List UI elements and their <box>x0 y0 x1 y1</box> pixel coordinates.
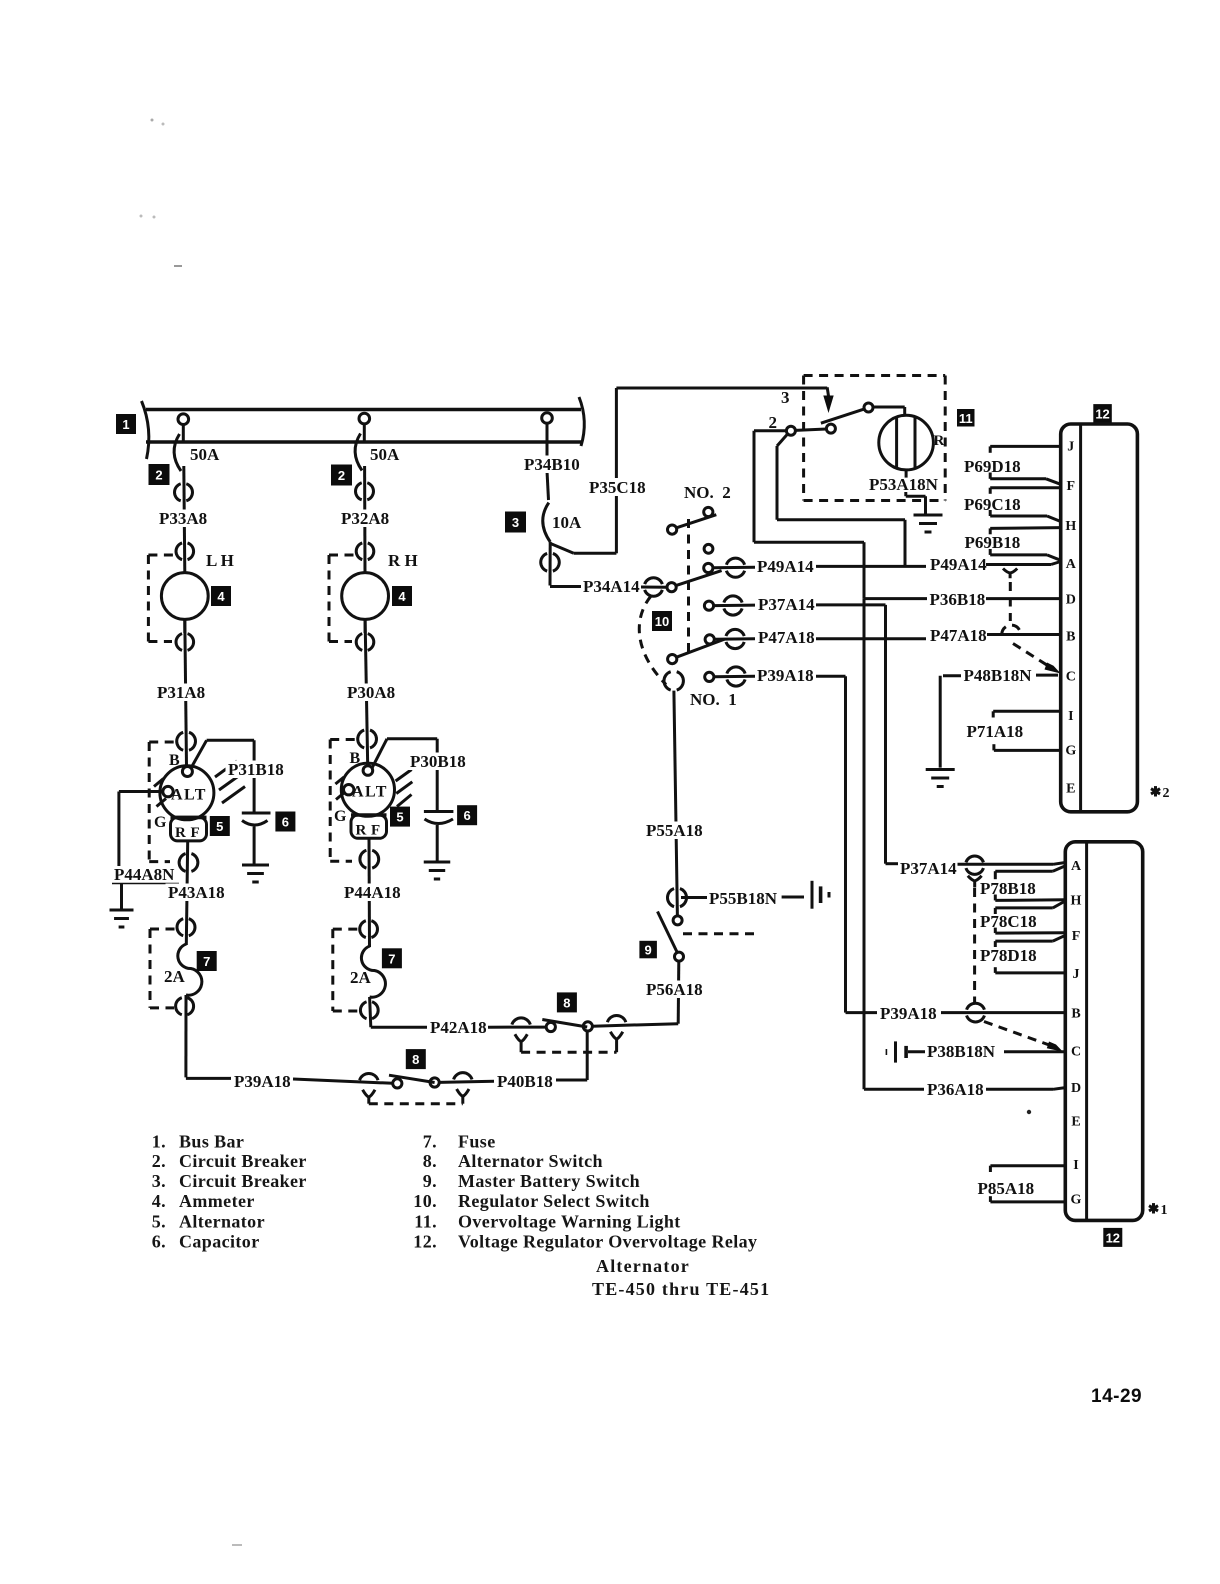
label P44A8N <box>114 865 175 884</box>
svg-text:P85A18: P85A18 <box>978 1179 1035 1198</box>
footnote *1 <box>1149 1203 1168 1218</box>
svg-text:6: 6 <box>463 808 470 823</box>
relay blade <box>821 409 865 423</box>
ground capacitor LH <box>242 865 269 882</box>
wire jumper P69D18 to pin J <box>990 446 1060 452</box>
ground P44A8N <box>110 910 134 927</box>
alternator switch 8 LH <box>293 1073 494 1104</box>
svg-text:7: 7 <box>388 951 395 966</box>
ammeter 4 LH <box>161 573 208 633</box>
item label square 10 <box>652 611 672 631</box>
label 3 position <box>781 388 790 407</box>
svg-text:P78D18: P78D18 <box>980 946 1037 965</box>
hatch marks RH alternator <box>396 770 413 807</box>
svg-text:8.: 8. <box>423 1151 437 1171</box>
ammeter 4 RH <box>342 573 389 633</box>
svg-text:P37A14: P37A14 <box>758 595 815 614</box>
svg-text:5: 5 <box>396 810 403 825</box>
label ALT LH <box>171 787 207 804</box>
switch 10 pole NO.2 <box>668 515 717 535</box>
svg-text:P40B18: P40B18 <box>497 1072 553 1091</box>
wire P37A14 corner down <box>816 605 886 863</box>
label P69D18 <box>964 457 1021 476</box>
terminal G circle LH <box>163 786 173 796</box>
svg-text:Capacitor: Capacitor <box>179 1232 260 1252</box>
label R H <box>388 551 418 570</box>
wire P55A18 <box>674 691 678 916</box>
svg-text:F: F <box>1067 479 1076 494</box>
svg-text:2A: 2A <box>350 968 372 987</box>
wire jumper P69C18 to pin H <box>990 510 1060 522</box>
label P78B18 <box>980 879 1036 898</box>
shield dashed drop lower <box>973 888 976 1003</box>
svg-text:10A: 10A <box>552 513 582 532</box>
circuit breaker 2 RH (50A) <box>355 434 362 471</box>
wire P44A8N <box>112 792 179 911</box>
svg-text:H: H <box>1071 894 1082 909</box>
svg-text:G: G <box>154 814 168 831</box>
svg-text:D: D <box>1071 1081 1081 1096</box>
label 2A LH <box>164 967 186 986</box>
svg-text:D: D <box>1066 593 1076 608</box>
svg-text:P36A18: P36A18 <box>927 1080 984 1099</box>
svg-text:3.: 3. <box>152 1171 166 1191</box>
terminal B circle RH <box>363 766 373 776</box>
svg-text:J: J <box>1067 439 1074 454</box>
svg-text:P53A18N: P53A18N <box>869 475 939 494</box>
wire P43A18 <box>186 841 187 945</box>
alternator switch 8 RH <box>488 1015 678 1052</box>
svg-text:4: 4 <box>217 589 225 604</box>
svg-text:4: 4 <box>398 589 406 604</box>
switch 10 pole NO.1 <box>668 639 725 664</box>
wire contact2 to P49A14 <box>777 434 905 567</box>
label P55B18N <box>709 889 778 908</box>
label P53A18N <box>869 475 939 494</box>
svg-text:1: 1 <box>122 417 129 432</box>
svg-text:2: 2 <box>769 413 778 432</box>
svg-text:G: G <box>334 808 348 825</box>
label P48B18N <box>964 666 1033 685</box>
connector above ammeter LH <box>176 543 194 560</box>
svg-text:P69C18: P69C18 <box>964 495 1021 514</box>
switch 9 dashed link <box>683 932 756 935</box>
fuse 7 RH dashed case <box>333 929 359 1011</box>
svg-text:P31B18: P31B18 <box>228 760 284 779</box>
wire jumper P85A18 to pin I <box>990 1166 1065 1172</box>
label P56A18 <box>644 980 704 999</box>
connector above fuse LH <box>177 919 195 936</box>
svg-text:5.: 5. <box>152 1212 166 1232</box>
connector below alternator LH <box>179 854 198 872</box>
svg-text:F: F <box>371 823 380 839</box>
item label square 4 LH <box>211 586 231 606</box>
svg-text:1.: 1. <box>152 1131 166 1151</box>
connector below ammeter RH <box>356 634 374 651</box>
svg-text:5: 5 <box>216 819 223 834</box>
label B RH <box>350 750 362 767</box>
capacitor 6 RH <box>424 812 454 863</box>
svg-text:2A: 2A <box>164 967 186 986</box>
svg-text:ALT: ALT <box>171 787 207 804</box>
wire P47A18 to relay block <box>816 635 1061 639</box>
fuse 7 LH dashed case <box>150 929 176 1008</box>
item label square 5 RH <box>390 807 410 827</box>
label NO. 2 <box>684 483 731 502</box>
label 10A <box>552 513 582 532</box>
wire P33A8 LH <box>184 466 185 573</box>
svg-text:Fuse: Fuse <box>458 1131 496 1151</box>
connector below alternator RH <box>360 850 379 868</box>
svg-text:B: B <box>1066 630 1075 645</box>
alternator 5 RH circle <box>341 763 394 816</box>
label P42A18 <box>430 1018 487 1037</box>
svg-text:F: F <box>191 825 200 841</box>
svg-text:1: 1 <box>1161 1203 1168 1218</box>
label P31A8 <box>155 683 211 702</box>
item label square 12 upper <box>1093 404 1112 423</box>
switch 10 mechanical link dashed <box>687 519 690 652</box>
wire P42A18 corner <box>370 997 427 1027</box>
label 2A RH <box>350 968 372 987</box>
terminal G circle RH <box>344 785 354 795</box>
wire jumper P78B18 to pin A <box>995 866 1064 879</box>
label G RH <box>334 808 348 825</box>
fuse 7 RH <box>361 946 385 997</box>
connector above fuse RH <box>360 921 378 938</box>
svg-text:A: A <box>1066 557 1077 572</box>
svg-text:P47A18: P47A18 <box>930 626 987 645</box>
wire P48B18N bracket <box>940 676 961 768</box>
svg-text:R: R <box>175 825 186 841</box>
wire jumper P69B18 to pin H <box>990 528 1060 535</box>
speck dot <box>1027 1110 1031 1114</box>
ground P53A18N <box>914 515 943 532</box>
switch 10 throw contact top <box>704 507 713 516</box>
svg-text:F: F <box>1072 929 1081 944</box>
svg-text:P42A18: P42A18 <box>430 1018 487 1037</box>
wire P39A18 corner down <box>816 676 846 1011</box>
svg-text:C: C <box>1071 1045 1081 1060</box>
label P33A8 <box>157 509 213 528</box>
ground P48B18N <box>926 770 955 787</box>
label P78D18 <box>980 946 1037 965</box>
item label square 8 LH <box>406 1049 426 1069</box>
wire contact3 to lamp <box>873 407 905 415</box>
svg-text:P55A18: P55A18 <box>646 821 703 840</box>
bus tap node RH <box>359 413 370 441</box>
svg-text:P69B18: P69B18 <box>965 533 1021 552</box>
wire P31A8 <box>185 619 187 766</box>
svg-text:Circuit Breaker: Circuit Breaker <box>179 1171 307 1191</box>
label P30B18 <box>408 752 468 771</box>
label P47A18 right <box>930 626 987 645</box>
wire P34B10 <box>547 441 549 500</box>
label P39A18 row4 <box>757 666 814 685</box>
upper block pin letters <box>1065 439 1076 796</box>
label B LH <box>169 752 181 769</box>
svg-text:9.: 9. <box>423 1171 437 1191</box>
label P69C18 <box>964 495 1021 514</box>
svg-text:B: B <box>1071 1007 1080 1022</box>
svg-text:Overvoltage Warning Light: Overvoltage Warning Light <box>458 1212 681 1232</box>
svg-text:A: A <box>1071 859 1082 874</box>
svg-text:Alternator: Alternator <box>596 1256 690 1276</box>
alternator 5 LH dashed case <box>149 742 176 862</box>
terminal B circle LH <box>182 767 192 777</box>
svg-text:E: E <box>1071 1114 1080 1129</box>
switch 10 row2 contact <box>704 601 713 610</box>
wire P53A18N <box>906 470 926 514</box>
svg-text:P69D18: P69D18 <box>964 457 1021 476</box>
label P47A18 row3 <box>758 628 815 647</box>
wire jumper P78C18 to pin F <box>995 928 1065 934</box>
svg-text:9: 9 <box>645 943 652 958</box>
svg-text:P44A8N: P44A8N <box>114 865 175 884</box>
wire contact2 to P36B18 <box>754 431 927 599</box>
switch 9 blade <box>658 912 678 953</box>
svg-text:8: 8 <box>412 1052 419 1067</box>
label 50A RH <box>370 445 400 464</box>
svg-text:P39A18: P39A18 <box>757 666 814 685</box>
label P39A18 LH <box>234 1072 291 1091</box>
label P34A14 <box>583 577 640 596</box>
wire row1 P49A14 <box>713 558 755 577</box>
item label square 8 RH <box>557 992 577 1012</box>
switch 10 row4 contact <box>705 672 714 681</box>
connector P34A14 feed <box>645 578 663 597</box>
label P31B18 <box>226 760 286 779</box>
alternator 5 RH dashed case <box>330 740 357 862</box>
relay contact 2 <box>786 426 795 435</box>
wire P32A8 RH <box>363 466 366 573</box>
svg-text:3: 3 <box>512 515 519 530</box>
overvoltage warning light 11 <box>879 415 934 470</box>
label P36B18 <box>930 590 986 609</box>
wire P39A18 into pin B <box>846 1012 1066 1013</box>
item label square 6 RH <box>457 805 477 825</box>
svg-text:P49A14: P49A14 <box>757 557 814 576</box>
wire row4 P39A18 <box>714 667 755 686</box>
wire jumper P85A18 to pin G <box>990 1196 1065 1202</box>
svg-text:P78C18: P78C18 <box>980 912 1037 931</box>
connector below switch 10 <box>664 672 683 690</box>
svg-text:14-29: 14-29 <box>1091 1386 1142 1407</box>
circuit breaker 3 (10A) <box>543 503 551 542</box>
wire jumper P78B18 to pin H <box>995 895 1065 901</box>
svg-text:7: 7 <box>203 954 210 969</box>
svg-text:10.: 10. <box>413 1191 437 1211</box>
svg-text:2: 2 <box>1163 786 1170 801</box>
svg-text:50A: 50A <box>370 445 400 464</box>
svg-text:12: 12 <box>1095 406 1109 421</box>
wire P36 vertical continued <box>864 599 924 1090</box>
svg-text:P39A18: P39A18 <box>880 1004 937 1023</box>
svg-text:I: I <box>1068 709 1073 724</box>
svg-text:2: 2 <box>155 468 162 483</box>
wire P40B18 junction <box>556 1031 587 1080</box>
label P30A8 <box>345 683 401 702</box>
label P39A18 lower <box>880 1004 937 1023</box>
connector P39A18 shield <box>967 1003 985 1022</box>
svg-text:4.: 4. <box>152 1191 166 1211</box>
wire P49A14 to relay block <box>816 562 1061 567</box>
svg-text:B: B <box>169 752 181 769</box>
svg-text:50A: 50A <box>190 445 220 464</box>
svg-text:P47A18: P47A18 <box>758 628 815 647</box>
terminal box R F RH <box>351 815 387 839</box>
label P44A18 <box>342 883 402 902</box>
item label square 6 LH <box>275 812 295 832</box>
shield dashed diagonal to pin C lower <box>984 1022 1063 1052</box>
label 2 position <box>769 413 778 432</box>
item label square 2 RH <box>331 465 352 486</box>
svg-text:P35C18: P35C18 <box>589 478 646 497</box>
svg-text:P71A18: P71A18 <box>967 722 1024 741</box>
svg-text:Bus Bar: Bus Bar <box>179 1131 244 1151</box>
alternator 5 LH circle <box>160 766 214 820</box>
fuse 7 LH <box>178 944 202 995</box>
lower block pin letters <box>1071 859 1082 1208</box>
switch 10 idle contact <box>704 544 713 553</box>
svg-text:P34B10: P34B10 <box>524 455 580 474</box>
svg-text:P49A14: P49A14 <box>930 555 987 574</box>
wire P36A18 into pin D <box>986 1088 1065 1090</box>
svg-text:R: R <box>356 823 367 839</box>
bus tap node 3 <box>542 413 553 441</box>
item label square 4 RH <box>392 586 412 606</box>
svg-text:TE-450 thru TE-451: TE-450 thru TE-451 <box>592 1279 770 1299</box>
capacitor 6 LH <box>242 813 271 865</box>
connector P37A14 shield <box>966 856 984 874</box>
switch 10 row1 contact <box>704 563 713 572</box>
label P69B18 <box>965 533 1021 552</box>
svg-text:Circuit Breaker: Circuit Breaker <box>179 1151 307 1171</box>
svg-text:P39A18: P39A18 <box>234 1072 291 1091</box>
svg-text:NO. 2: NO. 2 <box>684 483 731 502</box>
switch 9 contact bottom <box>675 952 684 961</box>
label P85A18 <box>978 1179 1035 1198</box>
label P78C18 <box>980 912 1037 931</box>
svg-text:G: G <box>1071 1193 1082 1208</box>
connector below ammeter LH <box>176 634 194 651</box>
label L H <box>206 551 234 570</box>
item label square 7 RH <box>382 948 402 968</box>
wire P37A14 into pin A <box>886 863 1066 865</box>
footnote *2 <box>1151 786 1170 801</box>
feed arrow into relay <box>823 387 833 413</box>
legend right column <box>413 1131 757 1251</box>
item label square 2 LH <box>149 464 170 485</box>
wire jumper P78C18 to pin H <box>995 902 1064 915</box>
ammeter 4 RH dashed case <box>329 555 354 642</box>
terminal box R F LH <box>171 817 207 841</box>
svg-text:Master Battery Switch: Master Battery Switch <box>458 1171 640 1191</box>
ground capacitor RH <box>424 862 451 879</box>
title TE range <box>592 1279 770 1299</box>
switch 8 RH dashed link <box>521 1051 617 1054</box>
label P43A18 <box>166 883 226 902</box>
brush ticks G LH <box>154 779 166 807</box>
item label square 7 LH <box>197 951 217 971</box>
svg-text:L H: L H <box>206 551 234 570</box>
ammeter 4 LH dashed case <box>148 555 174 642</box>
relay contact 3 <box>864 403 873 412</box>
svg-text:P32A8: P32A8 <box>341 509 389 528</box>
wire P34A14 corner <box>550 542 581 587</box>
label P35C18 <box>588 478 646 497</box>
wire jumper P69B18 to pin A <box>990 549 1060 560</box>
shield dashed drop upper <box>1009 582 1012 621</box>
item label square 9 <box>639 941 657 959</box>
svg-text:Alternator: Alternator <box>179 1212 265 1232</box>
battery symbol P55B18N <box>812 881 829 909</box>
svg-text:11.: 11. <box>414 1212 437 1232</box>
svg-text:6: 6 <box>282 815 289 830</box>
svg-text:B: B <box>350 750 362 767</box>
svg-text:G: G <box>1065 743 1076 758</box>
svg-text:11: 11 <box>959 411 973 426</box>
wire row2 P37A14 <box>714 596 755 615</box>
title Alternator <box>596 1256 690 1276</box>
svg-text:Voltage Regulator Overvoltage: Voltage Regulator Overvoltage Relay <box>458 1232 757 1252</box>
battery symbol P38B18N <box>886 1041 906 1062</box>
label P55A18 <box>644 821 704 840</box>
wire jumper P69D18 to pin F <box>990 473 1060 485</box>
wire P38B18N <box>908 1050 1065 1053</box>
svg-text:P34A14: P34A14 <box>583 577 640 596</box>
connector below breaker RH <box>355 483 373 500</box>
wire P39A18 vertical LH <box>186 995 231 1078</box>
svg-text:P55B18N: P55B18N <box>709 889 778 908</box>
label G LH <box>154 814 168 831</box>
svg-text:H: H <box>1065 519 1076 534</box>
svg-text:E: E <box>1066 782 1075 797</box>
wire jumper P78D18 to pin J <box>995 967 1065 973</box>
wire B-to-capacitor LH <box>192 740 254 813</box>
voltage regulator relay 12 upper block <box>1061 424 1138 812</box>
svg-text:7.: 7. <box>423 1131 437 1151</box>
svg-text:P43A18: P43A18 <box>168 883 225 902</box>
svg-text:Alternator Switch: Alternator Switch <box>458 1151 603 1171</box>
svg-text:12.: 12. <box>413 1232 437 1252</box>
wire P48B18N to pin C <box>1036 674 1058 677</box>
wire jumper P71A18 to pin G <box>994 744 1061 750</box>
svg-text:P37A14: P37A14 <box>900 859 957 878</box>
item label square 5 LH <box>210 816 230 836</box>
wire row3 P47A18 <box>714 629 755 648</box>
svg-text:P33A8: P33A8 <box>159 509 207 528</box>
svg-text:2.: 2. <box>152 1151 166 1171</box>
svg-text:Ammeter: Ammeter <box>179 1191 255 1211</box>
svg-text:12: 12 <box>1106 1230 1120 1245</box>
connector P55B18N <box>667 889 686 907</box>
item label square 12 lower <box>1103 1228 1122 1247</box>
svg-text:2: 2 <box>338 468 345 483</box>
wire jumper P69C18 to pin F <box>990 488 1060 494</box>
label P49A14 right <box>930 555 987 574</box>
item label square 1 <box>116 414 136 434</box>
wire P34A14 to pole <box>641 586 667 589</box>
svg-text:C: C <box>1066 669 1076 684</box>
hatch marks LH alternator <box>215 761 245 803</box>
switch 10 feed pole <box>667 571 722 592</box>
shield dashed diagonal to pin C <box>1013 644 1061 674</box>
svg-text:R: R <box>934 433 945 449</box>
connector below fuse LH <box>176 998 194 1015</box>
label NO. 1 <box>690 690 737 709</box>
wire jumper P71A18 to pin I <box>993 711 1060 717</box>
